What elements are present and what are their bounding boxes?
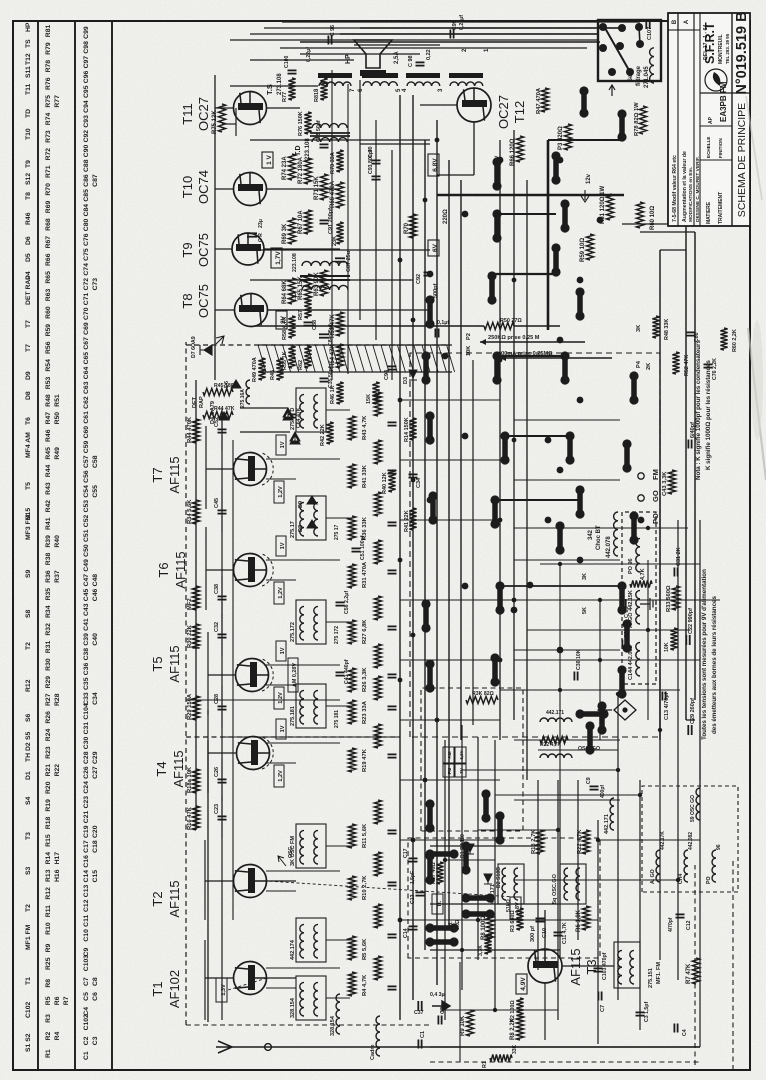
wire T11 base — [235, 108, 237, 136]
svg-text:C13 4/70pf: C13 4/70pf — [664, 692, 670, 720]
svg-text:C5: C5 — [83, 992, 90, 1001]
svg-text:C73: C73 — [92, 278, 99, 291]
resistor R34 5,6K — [192, 500, 199, 524]
resistor R63 90K — [320, 270, 327, 296]
svg-text:R49: R49 — [54, 447, 61, 460]
coil PO 96 — [712, 850, 716, 882]
resistor R81 1K — [320, 78, 327, 100]
potentiometer P1 line — [500, 357, 612, 359]
svg-text:1,3V: 1,3V — [221, 984, 227, 996]
svg-text:400pf: 400pf — [600, 785, 606, 798]
svg-text:C59: C59 — [83, 441, 90, 454]
svg-text:MF1 FM: MF1 FM — [25, 924, 32, 950]
svg-text:R29 150A: R29 150A — [187, 693, 193, 720]
wire rail ext 9 — [617, 694, 619, 1000]
junction — [435, 718, 440, 723]
wire detector — [240, 431, 290, 433]
svg-text:R55 1K: R55 1K — [282, 351, 288, 370]
resistor R62 47A — [304, 346, 311, 368]
wire rail C — [526, 180, 528, 780]
svg-text:R39: R39 — [45, 535, 52, 548]
svg-text:6V: 6V — [432, 243, 439, 252]
svg-text:S3: S3 — [25, 866, 32, 875]
svg-text:C51: C51 — [83, 529, 90, 542]
dashed bottom edge of big box — [430, 1061, 700, 1063]
svg-text:C95 50μf: C95 50μf — [316, 120, 322, 142]
resistor R64 68K — [288, 278, 295, 304]
svg-text:DET: DET — [192, 396, 198, 408]
wire stage top — [221, 516, 223, 532]
svg-text:S12: S12 — [25, 173, 32, 185]
capacitor C95 50pf — [320, 147, 329, 149]
svg-text:C43 3,3K: C43 3,3K — [662, 471, 668, 496]
text AM 0,28V box — [288, 658, 298, 692]
voltage box AM — [276, 641, 286, 661]
svg-text:R69 3K: R69 3K — [282, 223, 288, 244]
transistor T7 — [234, 453, 267, 486]
keyboard box extra contacts — [430, 939, 454, 945]
svg-text:R69: R69 — [45, 201, 52, 214]
switch contact 21 — [562, 204, 568, 228]
svg-text:R31 470A: R31 470A — [362, 561, 368, 588]
small cap C41 440pf — [336, 675, 345, 677]
switch contact 29 — [430, 925, 454, 931]
svg-text:R21: R21 — [45, 764, 52, 777]
resistor R13 2,7K — [536, 830, 543, 854]
svg-text:R74 23A: R74 23A — [282, 156, 288, 180]
svg-text:AF115: AF115 — [167, 645, 182, 682]
wire bc h4 — [699, 600, 701, 780]
switch wiring bar 5 — [497, 213, 556, 215]
svg-text:HP: HP — [25, 22, 32, 32]
svg-text:R15: R15 — [45, 834, 52, 847]
coil 442.2K — [636, 538, 640, 572]
switch contact 19 — [577, 292, 583, 316]
svg-text:R45 180Ω: R45 180Ω — [214, 383, 238, 389]
voltage box FM — [274, 582, 284, 604]
svg-text:OC75: OC75 — [196, 233, 211, 267]
transformer TD winding secondary — [312, 124, 347, 128]
svg-text:R47 470A: R47 470A — [536, 87, 542, 114]
keyboard box extra contacts 2 — [466, 895, 490, 901]
wire vert interconnect bl — [598, 839, 700, 841]
svg-text:T10: T10 — [25, 128, 32, 140]
switch contact 32 — [463, 846, 469, 870]
wire vert interconnect bl — [445, 1009, 558, 1011]
svg-text:C23: C23 — [214, 804, 220, 814]
resistor R52 47K — [672, 352, 679, 374]
bottom dashed coil box — [642, 786, 738, 892]
svg-text:C7: C7 — [83, 977, 90, 986]
svg-text:S11: S11 — [25, 66, 32, 78]
extra junction dots mid — [427, 685, 434, 692]
rotary switch bar — [605, 28, 630, 72]
svg-text:R48 33K: R48 33K — [664, 319, 670, 340]
svg-text:C35: C35 — [83, 677, 90, 690]
capacitor C99 0,22uf — [449, 30, 451, 39]
wire FM agc2 — [186, 699, 340, 701]
svg-text:R7: R7 — [63, 996, 70, 1005]
svg-text:R42: R42 — [45, 500, 52, 513]
svg-text:C7: C7 — [600, 1005, 606, 1012]
resistor R6 1,8K — [582, 906, 589, 930]
switch wiring bar 2 — [497, 355, 565, 357]
junction — [398, 678, 403, 683]
transformer TS lamination — [318, 73, 352, 78]
svg-text:1,7V: 1,7V — [275, 251, 282, 265]
svg-text:275.151: 275.151 — [648, 968, 654, 988]
wire vertical interconnect — [400, 599, 500, 601]
svg-text:R73 33A: R73 33A — [330, 152, 336, 174]
svg-text:R10: R10 — [45, 922, 52, 935]
svg-text:R4: R4 — [54, 1031, 61, 1040]
rotary switch frame — [598, 20, 661, 81]
svg-text:2,5A: 2,5A — [394, 51, 400, 64]
svg-text:R20: R20 — [45, 781, 52, 794]
wire audio interconnect — [359, 80, 361, 320]
resistor R22 4,7K — [582, 830, 589, 854]
svg-text:R57: R57 — [298, 310, 304, 320]
wire T7 collector — [206, 468, 233, 470]
svg-text:C34: C34 — [416, 477, 422, 488]
svg-text:C93: C93 — [83, 115, 90, 128]
switch contact 22 — [553, 156, 559, 180]
svg-text:R3: R3 — [45, 1014, 52, 1023]
wires to switch block — [300, 41, 600, 43]
svg-text:R2 100Ω: R2 100Ω — [510, 1000, 516, 1022]
resistor R16 47K — [192, 806, 199, 830]
svg-text:C11: C11 — [83, 914, 90, 926]
svg-text:R70: R70 — [404, 222, 410, 234]
transistor T8 — [235, 294, 268, 327]
svg-text:C54: C54 — [83, 485, 90, 498]
wire audio rail top — [214, 75, 216, 380]
wire vert interconnect bl — [538, 749, 618, 751]
capacitor C35 50pf — [320, 381, 329, 383]
hatched chassis ground bar — [258, 371, 452, 373]
svg-text:TRAITEMENT: TRAITEMENT — [718, 192, 724, 224]
diode TH text — [432, 894, 443, 914]
svg-text:PO: PO — [706, 877, 712, 885]
capacitor C30 10K — [573, 672, 575, 681]
svg-text:C1: C1 — [420, 1031, 426, 1038]
diode D1 BA110 — [466, 844, 474, 854]
svg-text:C90: C90 — [83, 145, 90, 158]
keyboard extra wires — [430, 949, 560, 951]
dashed emitter arc — [262, 659, 273, 691]
svg-text:R56: R56 — [45, 341, 52, 354]
svg-text:R36: R36 — [45, 570, 52, 583]
svg-text:GO: GO — [651, 490, 660, 502]
svg-text:R34: R34 — [45, 605, 52, 618]
speaker coil bar — [360, 70, 386, 76]
resistor ladder — [348, 748, 355, 772]
svg-text:S6: S6 — [25, 713, 32, 722]
svg-text:Toutes les tensions sont mesur: Toutes les tensions sont mesurées pour 9… — [701, 569, 708, 740]
svg-text:C14: C14 — [83, 870, 90, 883]
resistor R65 15K — [304, 274, 311, 300]
svg-text:T10: T10 — [180, 176, 195, 198]
diode D4 bowtie — [283, 408, 293, 420]
dashed FM box bottom — [186, 344, 448, 346]
resistor R33 560A — [672, 586, 679, 610]
svg-text:OC27: OC27 — [196, 97, 211, 131]
resistor ladder 2 — [374, 724, 381, 748]
resistor ladder — [348, 972, 355, 996]
junction — [423, 778, 428, 783]
diode D4 OA79 — [219, 412, 229, 420]
svg-text:FM: FM — [651, 469, 660, 480]
transformer TD secondary winding A — [302, 285, 348, 290]
legend FM — [638, 473, 644, 479]
svg-text:1,2V: 1,2V — [278, 692, 284, 704]
dashed box line bottom left 2 — [732, 858, 734, 1070]
svg-text:R44 47K: R44 47K — [214, 406, 235, 412]
svg-text:R17 40Ω: R17 40Ω — [431, 862, 437, 884]
svg-text:C95: C95 — [83, 85, 90, 98]
svg-text:TD: TD — [25, 109, 32, 118]
svg-text:Choc BT: Choc BT — [596, 525, 602, 550]
svg-text:C31: C31 — [83, 722, 90, 735]
svg-text:MF4 AM: MF4 AM — [25, 432, 32, 458]
resistor R22 4,7K GO — [540, 736, 568, 743]
svg-text:R13 2,7K: R13 2,7K — [531, 829, 537, 854]
junction — [423, 198, 428, 203]
svg-text:R23 33A: R23 33A — [362, 700, 368, 724]
voltage box AM — [276, 536, 286, 556]
svg-text:R34 5,6K: R34 5,6K — [187, 499, 193, 524]
resistor 4,7K vert — [630, 580, 652, 587]
resistor R42 22K — [326, 422, 333, 444]
coil 442.082 — [636, 642, 640, 676]
svg-text:HP: HP — [345, 54, 352, 64]
svg-text:R26: R26 — [45, 711, 52, 724]
wire vertical interconnect low — [514, 799, 620, 801]
resistor R49 470A — [258, 358, 265, 380]
svg-text:R67: R67 — [45, 236, 52, 249]
svg-text:250KΩ prise 0,25 M: 250KΩ prise 0,25 M — [488, 335, 540, 341]
wire base drop — [266, 458, 340, 460]
svg-text:C102: C102 — [25, 1002, 32, 1018]
wire T1 collector — [205, 977, 233, 979]
transistor T10 — [234, 173, 267, 206]
svg-text:R48: R48 — [45, 394, 52, 407]
wire inner margin joins — [660, 249, 686, 251]
switch contact 23 — [619, 670, 625, 694]
capacitor C37 0,43u — [417, 1001, 419, 1011]
svg-text:R74: R74 — [45, 113, 52, 126]
svg-text:C53: C53 — [83, 500, 90, 513]
svg-text:5K: 5K — [582, 607, 588, 614]
svg-text:C144 442.082: C144 442.082 — [628, 645, 634, 680]
svg-text:R31: R31 — [45, 641, 52, 654]
svg-text:R52 47K: R52 47K — [684, 355, 690, 376]
svg-text:R78: R78 — [45, 60, 52, 73]
svg-text:C35 50pf: C35 50pf — [328, 366, 334, 388]
wire top bundle 4 — [282, 21, 640, 23]
svg-text:T8: T8 — [180, 293, 195, 308]
svg-text:0,22: 0,22 — [426, 49, 432, 60]
svg-text:328.154: 328.154 — [290, 997, 296, 1018]
resistor R3 680A — [516, 908, 523, 930]
capacitor decoupling — [388, 425, 397, 427]
switch contact 27 — [624, 444, 630, 468]
capacitor decoupling — [388, 629, 397, 631]
svg-text:R23: R23 — [45, 746, 52, 759]
svg-text:1V: 1V — [280, 542, 286, 549]
svg-text:300 pf: 300 pf — [530, 926, 536, 942]
diode D3 — [409, 370, 417, 380]
wire T12 collector — [420, 104, 457, 106]
capacitor C52 — [218, 432, 227, 434]
diode D9 — [307, 496, 317, 504]
dashed switch box 2 — [408, 838, 600, 958]
resistor R44 47K vertical — [203, 411, 233, 418]
svg-text:PO 96: PO 96 — [628, 558, 634, 574]
svg-text:C11 4,7K: C11 4,7K — [562, 922, 568, 944]
capacitor C29 260pf — [687, 725, 689, 735]
wire vert interconnect bl — [462, 949, 538, 951]
arrow C37 — [432, 1001, 450, 1011]
resistor R74 23A — [288, 154, 295, 180]
wire stage top — [221, 785, 223, 801]
wire vert interconnect bl — [478, 829, 558, 831]
resistor R66 120 ohm — [516, 136, 523, 162]
svg-text:1,2V: 1,2V — [278, 587, 284, 599]
switch contact below block — [581, 91, 587, 113]
oscillator coil 442.171 — [498, 864, 524, 904]
svg-text:C10: C10 — [83, 929, 90, 942]
switch contact 34 — [483, 794, 489, 818]
svg-text:D9: D9 — [298, 501, 304, 508]
junction — [398, 558, 403, 563]
wire R50 bus — [255, 325, 484, 327]
svg-text:R68: R68 — [45, 218, 52, 231]
svg-text:R45: R45 — [270, 370, 276, 380]
svg-text:R46 1K: R46 1K — [330, 385, 336, 404]
svg-text:K signifie 1000Ω pour les rési: K signifie 1000Ω pour les résistances — [705, 360, 712, 470]
switch contact 10 — [502, 436, 508, 460]
svg-text:R81: R81 — [45, 25, 52, 38]
capacitor CR 23uF — [247, 236, 257, 238]
svg-text:10K: 10K — [664, 642, 670, 652]
resistor R51 15K — [372, 382, 379, 404]
wire +9V bus — [399, 95, 401, 1020]
svg-text:R59 10Ω: R59 10Ω — [580, 238, 586, 262]
dashed arrow T2 — [267, 881, 515, 897]
capacitor C45 — [218, 513, 227, 515]
svg-text:C64: C64 — [83, 367, 90, 380]
wire bus 7 — [472, 360, 474, 725]
svg-text:R43: R43 — [45, 482, 52, 495]
svg-text:OSC: OSC — [578, 746, 589, 752]
svg-text:C97: C97 — [83, 56, 90, 69]
wire rail ext 10 — [639, 780, 641, 1030]
svg-text:OC27: OC27 — [496, 95, 511, 129]
svg-text:R22 4,7K: R22 4,7K — [540, 742, 562, 748]
svg-text:328.154: 328.154 — [330, 1015, 336, 1036]
switch contact 13 — [494, 214, 500, 238]
legend PO — [638, 517, 645, 524]
wire inner margin 660 — [659, 250, 661, 740]
wire vertical interconnect — [400, 779, 500, 781]
svg-text:2K: 2K — [646, 363, 652, 370]
dashed right big box — [410, 353, 660, 737]
scan streak — [748, 328, 766, 480]
wire IF — [326, 705, 350, 707]
capacitor C76 2,2K — [704, 367, 713, 369]
svg-text:R38: R38 — [45, 553, 52, 566]
wire T5 collector — [208, 674, 235, 676]
resistor ladder 2 — [374, 852, 381, 876]
wire collector rail FM — [195, 380, 197, 830]
wire emitter drop — [266, 890, 296, 892]
wire vert interconnect bl — [445, 859, 495, 861]
svg-text:1 V: 1 V — [266, 154, 273, 164]
wire base drop — [266, 742, 340, 744]
svg-text:R19: R19 — [45, 799, 52, 812]
svg-text:33K: 33K — [512, 1044, 518, 1054]
svg-text:P4: P4 — [636, 360, 642, 368]
title block SFRT logo — [705, 69, 727, 91]
antenna — [216, 1041, 232, 1053]
svg-text:C107: C107 — [647, 27, 653, 40]
wire vertical interconnect low — [514, 419, 620, 421]
svg-text:15K: 15K — [366, 394, 372, 404]
wire base drop — [266, 559, 340, 561]
svg-text:D3: D3 — [403, 377, 409, 384]
wire audio bias — [437, 194, 624, 196]
capacitor decoupling — [388, 573, 397, 575]
coil A GO 442.17K — [656, 850, 660, 882]
switch contact 8 — [497, 586, 503, 610]
resistor ladder 2 — [374, 644, 381, 668]
svg-text:R3K 82Ω: R3K 82Ω — [472, 691, 494, 697]
wire IF — [326, 939, 350, 941]
cadre ferrite coil 1 — [376, 1016, 380, 1056]
svg-text:S1 S2: S1 S2 — [25, 1033, 32, 1052]
wire audio coupling — [268, 309, 340, 311]
resistor ladder 2 — [374, 492, 381, 516]
legend GO — [638, 495, 644, 501]
svg-text:R5 5,6K: R5 5,6K — [362, 938, 368, 960]
svg-text:R60: R60 — [45, 306, 52, 319]
svg-text:MF1. FM: MF1. FM — [656, 962, 662, 984]
svg-text:T2: T2 — [150, 891, 165, 906]
IF transformer 442.174 — [296, 918, 326, 962]
svg-text:C41 440pf: C41 440pf — [344, 659, 350, 684]
svg-text:R6 1,8K: R6 1,8K — [576, 909, 582, 932]
svg-text:C99: C99 — [83, 26, 90, 39]
svg-text:D9: D9 — [25, 371, 32, 380]
wire bus 6 — [460, 180, 462, 740]
svg-text:AF115: AF115 — [171, 750, 186, 787]
svg-text:C32: C32 — [214, 622, 220, 632]
wire T2 osc link — [267, 880, 296, 882]
svg-text:C9: C9 — [83, 947, 90, 956]
svg-text:12v: 12v — [586, 173, 592, 184]
wire speaker link — [354, 44, 440, 46]
wire bc h1 — [559, 564, 561, 780]
resistor R58 4,7K — [288, 316, 295, 338]
resistor R72 180A — [304, 158, 311, 184]
resistor R15 3,3K — [484, 934, 491, 954]
svg-text:AF115: AF115 — [568, 948, 583, 985]
switch contact 18 — [562, 356, 568, 380]
svg-text:C16: C16 — [83, 855, 90, 868]
switch contact below block 2 — [619, 114, 625, 137]
svg-text:A..GO 442.15K: A..GO 442.15K — [628, 590, 634, 628]
